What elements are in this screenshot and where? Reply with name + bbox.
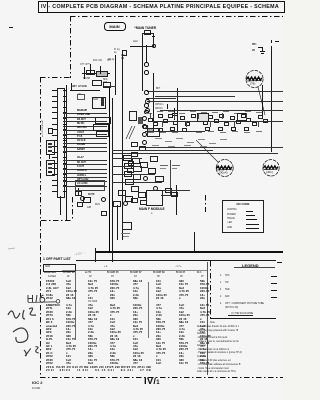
text: 56k (179, 338, 184, 341)
text: TP (78, 94, 81, 97)
wire (49, 154, 50, 159)
text: 10n (179, 331, 184, 334)
connector pin stub (63, 101, 66, 102)
text: U DAT (77, 132, 84, 135)
text: 1uF (133, 342, 138, 345)
component box (96, 71, 108, 77)
text: xxx (134, 27, 137, 30)
text: 22n (66, 331, 71, 334)
text: 330 (179, 280, 184, 283)
component box (122, 222, 132, 230)
text: 1uF (66, 280, 71, 283)
text: 10x 75 (156, 342, 165, 345)
text: 2F42 (46, 297, 53, 300)
text: 47u (88, 304, 93, 307)
text: 330 (88, 355, 93, 358)
component box (153, 122, 158, 126)
text: 03’ (111, 276, 114, 279)
text: 10x 75 (66, 338, 75, 341)
connector pin stub (63, 157, 66, 158)
text: F5202 (46, 280, 54, 283)
connector pin stub (63, 180, 66, 181)
label smudge (62, 270, 207, 271)
wire (76, 117, 107, 118)
text: 56k (200, 359, 205, 362)
text: 101 (133, 338, 138, 341)
component box (144, 30, 151, 35)
text: 10x 75 (200, 304, 209, 307)
label smudge (184, 145, 191, 146)
connector pin stub (63, 107, 66, 108)
wire (76, 130, 107, 131)
main vertical bus (109, 88, 110, 252)
text: 1000u (133, 304, 141, 307)
connector pin stub (63, 124, 66, 125)
text: 22 16 (179, 318, 187, 321)
wire (70, 90, 100, 91)
text: 68u 16 (66, 297, 75, 300)
text: - Present parallel in stru (197, 352, 242, 355)
text: 4.7k 25 (179, 290, 189, 293)
text: 475-75 (110, 311, 119, 314)
text: 2.2k (110, 352, 116, 355)
component box (86, 70, 95, 75)
svg-text:(30x4): (30x4) (219, 171, 228, 175)
text: C?? &nbsp;R?? (80, 64, 90, 67)
MAIN TUNER label (136, 27, 156, 30)
terminal circle (143, 176, 148, 181)
text: 2.2k (66, 311, 72, 314)
label smudge (179, 113, 185, 114)
label smudge (155, 138, 162, 139)
text: 1uF (179, 304, 184, 307)
terminal circle (142, 116, 147, 121)
text: L/C AUX3 (77, 183, 87, 186)
text: 10x 75 (179, 283, 188, 286)
wire (76, 147, 107, 148)
component box (173, 121, 178, 125)
text: 477 (133, 362, 138, 365)
wire (262, 47, 263, 51)
PCB outline left upper (70, 16, 71, 78)
text: RC OUT (77, 162, 86, 165)
component box (48, 128, 53, 134)
terminal circle (123, 201, 128, 206)
text: 679-75 (156, 321, 165, 324)
text: 4 (220, 303, 221, 306)
terminal circle (144, 70, 149, 75)
wire (63, 138, 76, 139)
text: SANDY (77, 149, 85, 152)
text: 22 16 (110, 335, 118, 338)
text: 4.7u (88, 325, 94, 328)
text: AV CLR (77, 140, 85, 143)
text: 1k2 (179, 311, 184, 314)
component box (118, 190, 126, 196)
text: 2F52 (46, 362, 53, 365)
wire (194, 232, 195, 252)
text: 475-75 (200, 314, 209, 317)
text: 1000u (88, 342, 96, 345)
wire (150, 113, 151, 119)
component box (205, 127, 210, 131)
component box (125, 196, 133, 202)
wire (147, 101, 283, 102)
footer (32, 381, 42, 384)
wire (78, 188, 79, 196)
terminal circle (144, 62, 149, 67)
text: 13+ (156, 331, 161, 334)
label smudge (208, 131, 214, 132)
text: 2F-C (46, 352, 53, 355)
wire (113, 153, 278, 154)
text: AUDIO R (77, 170, 87, 173)
wire (100, 66, 101, 74)
text: 2.2k (179, 335, 185, 338)
text: 8u2 (110, 304, 115, 307)
text: AV-A7 (77, 157, 84, 160)
wire (76, 186, 107, 187)
component box (131, 198, 138, 203)
wire (172, 115, 177, 116)
stray dash left margin (9, 27, 13, 28)
text: 56k (66, 314, 71, 317)
wire (174, 115, 175, 120)
component box (75, 191, 82, 196)
wire (76, 143, 107, 144)
component box (197, 113, 209, 122)
component box (155, 176, 164, 182)
label smudge (196, 132, 202, 133)
text: 330 (133, 318, 138, 321)
text: x (88, 294, 90, 297)
text: 22n (179, 355, 184, 358)
text: 50 1647 02 (63, 272, 75, 275)
label smudge (123, 236, 129, 237)
text: OPT AUX2 (77, 179, 88, 182)
wire (258, 121, 259, 127)
component box (197, 117, 203, 121)
text: 1k2 (66, 287, 71, 290)
dense IF strip band y114-135 (143, 125, 148, 129)
connector pin tick (52, 163, 57, 164)
text: TIP (225, 282, 229, 285)
text: 330 (156, 338, 161, 341)
text: x (179, 297, 181, 300)
component box (237, 113, 247, 121)
text: 13+ (88, 348, 93, 351)
wire (112, 98, 113, 262)
legend box in schematic (222, 200, 264, 233)
component box (231, 127, 236, 131)
text: 1k2 (200, 331, 205, 334)
text: BH DU (77, 123, 84, 126)
text: 100u 25 (179, 314, 190, 317)
wire (60, 196, 61, 215)
text: 2F30 (46, 359, 53, 362)
text: 679-75 (110, 280, 119, 283)
text: 1000u (200, 287, 208, 290)
component box (75, 185, 105, 191)
text: 100u 25 (156, 294, 167, 297)
label smudge (244, 132, 250, 133)
wire (76, 260, 276, 261)
text: C18s (46, 294, 53, 297)
text: 68u 16 (133, 280, 142, 283)
connector pin stub (63, 96, 66, 97)
text: 477 (110, 342, 115, 345)
pointer from circle (255, 87, 271, 117)
zigzag circle top right (245, 70, 265, 90)
component box (77, 202, 83, 207)
connector pin tick (52, 152, 57, 153)
label smudge (256, 131, 262, 132)
text: MUTE (88, 194, 95, 197)
text: 8u2 (88, 283, 93, 286)
text: solde mains ab c a commune (197, 371, 236, 374)
mid components under bus (123, 155, 132, 161)
text: P-DNP (83, 78, 90, 81)
wire (112, 158, 142, 159)
component box (244, 127, 249, 131)
component box (124, 171, 132, 177)
OFF PART LIST header (43, 258, 71, 261)
wire (76, 134, 107, 135)
handwritten marks (2, 285, 72, 370)
text: 330 (179, 359, 184, 362)
text: 679-75 (179, 342, 188, 345)
text: 47u (110, 325, 115, 328)
long horizontal wires right (147, 91, 283, 92)
connector pin tick (52, 174, 57, 175)
terminal circle (145, 108, 150, 113)
component box (122, 50, 127, 57)
terminal circle (142, 132, 147, 137)
wire (234, 267, 275, 268)
text: 101 (200, 321, 205, 324)
text: R: 1g1p (114, 49, 120, 54)
text: FY-B (77, 136, 82, 139)
text: 1k2 (110, 328, 115, 331)
text: 1000u (66, 321, 74, 324)
component box (138, 192, 146, 198)
component box (252, 122, 257, 126)
wire (63, 169, 76, 170)
PCB outline segment (dash-dot) (41, 220, 73, 221)
terminal circle (80, 196, 85, 201)
wire (170, 160, 171, 195)
text: 68u 16 (133, 359, 142, 362)
text: 8u2 (200, 307, 205, 310)
wire (95, 248, 96, 262)
text: 68u 16 (179, 321, 188, 324)
text: 2F73 (46, 314, 53, 317)
text: 13+ (66, 328, 71, 331)
wire (160, 110, 283, 111)
table (104, 266, 107, 269)
wire (210, 121, 211, 127)
text: 22n (110, 294, 115, 297)
component box (129, 111, 137, 121)
component box (241, 114, 246, 118)
text: 477 (88, 321, 93, 324)
component cluster top left (y 64-87) (82, 73, 110, 74)
wire (176, 185, 177, 215)
label smudge (146, 113, 152, 114)
component box (148, 118, 153, 122)
text: 68u 16 (110, 338, 119, 341)
signal label stack (77, 110, 87, 113)
circles terminals left mid (144, 90, 149, 95)
text: 68u 16 (200, 342, 209, 345)
wire (150, 121, 283, 122)
text: 220-75 (156, 328, 165, 331)
svg-text:(30x): (30x) (266, 170, 273, 174)
text: MAIN F MODULE (139, 208, 165, 211)
label smudge (220, 132, 226, 133)
component box (133, 174, 141, 180)
text: 475-75 (88, 290, 97, 293)
text: 1 (220, 282, 221, 285)
terminal circle (152, 44, 157, 49)
component box (165, 188, 172, 193)
text: 47u (179, 307, 184, 310)
wire (112, 174, 155, 175)
connector pin stub (63, 191, 66, 192)
label smudge (234, 113, 240, 114)
text: 2.2k (200, 355, 206, 358)
text: CRTA In (155, 104, 163, 107)
text: 101 (156, 280, 161, 283)
connector pin stub (63, 146, 66, 147)
terminal circle (144, 103, 149, 108)
label smudge (200, 146, 207, 147)
text: 50 1647 05 (107, 272, 119, 275)
text: 679-75 (88, 338, 97, 341)
text: 02’ (89, 276, 92, 279)
text: 4.7u (200, 348, 206, 351)
label smudge (245, 111, 251, 112)
text: EMBPSFC (46, 304, 60, 307)
text smudges TA/DA (160, 165, 168, 166)
text: 10x 75 (133, 321, 142, 324)
text: OC 9413 (88, 301, 97, 304)
text: 2 (220, 275, 221, 278)
component dark box (138, 117, 144, 124)
PCB outline segment (dash-dot) (205, 195, 206, 212)
text: 8u2 (133, 325, 138, 328)
text: - 1 7 + (175, 266, 182, 269)
text: 47u (66, 283, 71, 286)
wire (66, 85, 67, 220)
text: - Me remainder on at 100mm (197, 349, 229, 352)
text: 10n (88, 328, 93, 331)
component box (75, 180, 105, 186)
wire jog (167, 104, 168, 108)
text: 22n (133, 314, 138, 317)
text: 2F1 (46, 290, 51, 293)
text: - also they may powered wi (197, 330, 238, 333)
connector pin tick (52, 191, 57, 192)
text: 56k (110, 355, 115, 358)
text: 4.7u (156, 307, 162, 310)
tuner box (142, 33, 154, 47)
note block (210, 322, 215, 325)
terminal circle (142, 124, 147, 129)
text: DA OUT (77, 119, 86, 122)
wire (76, 151, 107, 152)
component box (218, 127, 223, 131)
text: 4.7k 25 (133, 328, 143, 331)
text: 04’ (134, 276, 137, 279)
text: 100u 25 (88, 311, 99, 314)
text: BF? (156, 88, 160, 91)
text: 1k2 (133, 348, 138, 351)
wire (275, 41, 279, 42)
wire diagonal pair (124, 126, 136, 140)
text: - Voids. Take commander mo (197, 368, 229, 371)
text: 2R (252, 50, 255, 53)
terminal circle (153, 186, 158, 191)
text: LEGEND (242, 264, 259, 267)
text: 220-75 (88, 345, 97, 348)
text: 4.7k 25 (110, 307, 120, 310)
wire (76, 160, 107, 161)
PCB outline step (40, 77, 71, 78)
text: 1000u (110, 362, 118, 365)
text: 1000u (156, 325, 164, 328)
text: SAW (93, 99, 98, 102)
text: 10n (66, 307, 71, 310)
text: CRTA b (155, 108, 163, 111)
text: 1k2 (156, 290, 161, 293)
wire (222, 113, 223, 119)
wire (76, 164, 107, 165)
wire (63, 117, 76, 118)
text: 4.7k 25 (156, 348, 166, 351)
component box (230, 116, 235, 120)
text: 50 16 47 (176, 272, 185, 275)
text: 477 (156, 304, 161, 307)
wire (207, 262, 208, 375)
text: 22n (156, 335, 161, 338)
text: H-PL (46, 338, 53, 341)
label smudge (187, 142, 194, 143)
connector pin tick (52, 135, 57, 136)
label smudge (160, 132, 166, 133)
small rotated boxes left (46, 140, 55, 155)
connector pin tick (52, 118, 57, 119)
label smudge (176, 138, 183, 139)
connector pin stub (63, 185, 66, 186)
text: 22 16 (88, 314, 96, 317)
text: 47u (200, 328, 205, 331)
title bar (38, 1, 285, 13)
wire (76, 169, 107, 170)
text: 10x 75 (179, 362, 188, 365)
text: SIZE (45, 266, 50, 269)
text: 679-75 (110, 359, 119, 362)
wire (271, 276, 277, 277)
text: 2F1 3 (46, 318, 54, 321)
connector pin tick (52, 168, 57, 169)
text: x (200, 318, 202, 321)
connector pin stub (63, 118, 66, 119)
component box (140, 200, 147, 205)
text: 2F52 (46, 355, 53, 358)
label smudge (232, 131, 238, 132)
connector pin stub (63, 152, 66, 153)
